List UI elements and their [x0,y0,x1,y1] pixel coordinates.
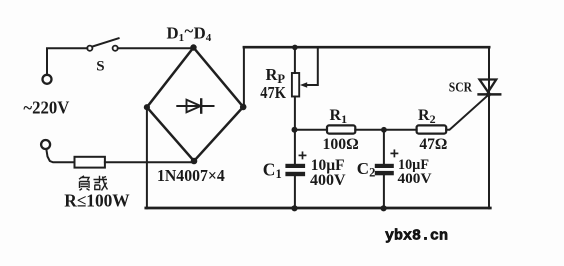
load resistor (negative load box) [75,157,105,168]
svg-text:100Ω: 100Ω [323,134,359,153]
svg-text:ybx8.cn: ybx8.cn [385,228,448,245]
node (top rail / RP junction) [292,45,298,51]
svg-text:400V: 400V [398,170,432,187]
capacitor C2 [375,130,394,209]
capacitor C1 [285,130,305,209]
label 负载 (load) [79,176,108,191]
svg-text:~220V: ~220V [23,98,69,118]
top rail wire [244,46,489,49]
diode symbol inside bridge [177,99,213,112]
node (C2 bottom on rail) [381,205,387,211]
svg-text:47Ω: 47Ω [419,134,447,153]
wire (load to bridge bottom vertex) [105,161,194,163]
wire (right side vertical, SCR anode) [488,47,490,94]
wire (left vertex down to bottom rail) [146,107,148,208]
potentiometer RP wiper arrow [300,48,318,88]
bridge rectifier D1-D4 (diamond) [147,48,243,162]
wire (right vertex up to top rail) [243,47,245,107]
node (bridge top vertex) [190,44,196,50]
resistor R2 box [417,125,447,133]
node (C2 top) [381,127,387,133]
wire (rail to RP top) [294,47,296,73]
svg-text:47K: 47K [260,83,286,102]
svg-text:R≤100W: R≤100W [64,191,130,211]
SCR (thyristor) symbol [479,80,501,97]
switch S [87,38,118,51]
wire (SCR cathode down to bottom rail) [488,95,490,209]
wire (R2 to gate diagonal) [446,95,489,130]
wire [295,129,327,131]
resistor R1 box [327,125,355,133]
bottom rail wire [146,207,491,210]
wire (RP bottom to R1 node) [294,97,296,130]
terminal T1 (~220V upper) [43,75,52,84]
svg-text:400V: 400V [310,172,346,189]
node (R1 left / C1 top) [292,127,298,133]
node (C1 bottom on rail) [291,205,297,211]
potentiometer RP box [292,73,299,97]
node (bridge bottom vertex) [191,158,198,165]
wire [47,48,87,75]
wire [118,47,194,49]
svg-text:SCR: SCR [449,81,473,96]
node (bridge left vertex) [144,104,150,110]
wire (terminal to load) [46,149,74,162]
terminal T2 (~220V lower) [41,140,50,149]
plus sign C1 [299,152,305,158]
node (bridge right vertex) [240,104,247,111]
svg-text:S: S [96,59,104,75]
svg-text:1N4007×4: 1N4007×4 [157,166,225,185]
wire [355,129,416,131]
plus sign C2 [391,150,397,156]
